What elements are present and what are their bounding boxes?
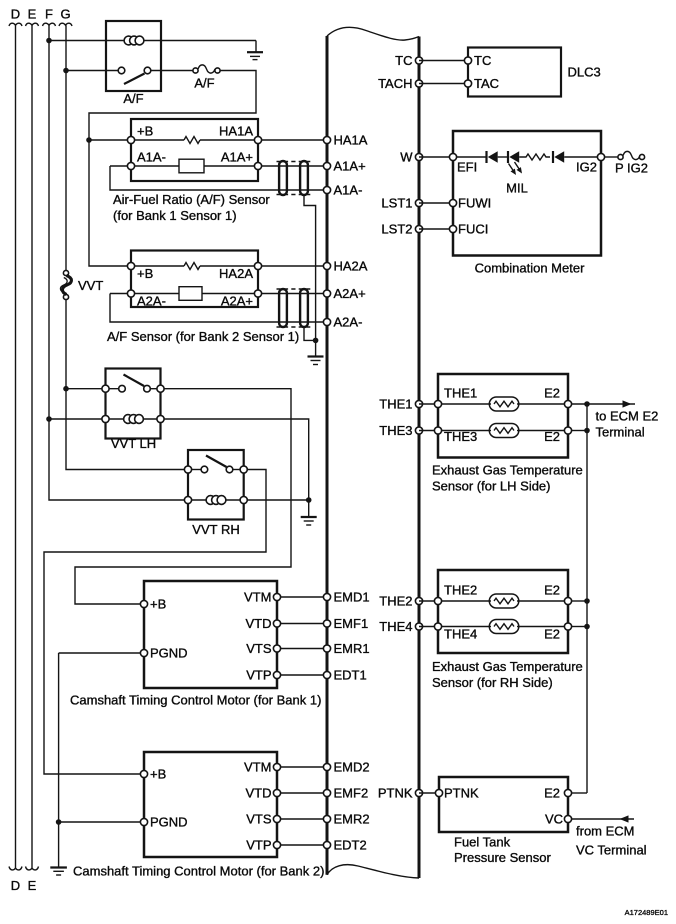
svg-text:A/F: A/F	[194, 76, 214, 91]
svg-text:A2A+: A2A+	[221, 294, 253, 309]
svg-text:A2A-: A2A-	[137, 294, 166, 309]
svg-text:LST1: LST1	[381, 196, 412, 211]
svg-text:THE4: THE4	[379, 619, 412, 634]
svg-text:A1A+: A1A+	[221, 150, 253, 165]
svg-text:to ECM E2: to ECM E2	[596, 409, 659, 424]
svg-text:HA1A: HA1A	[219, 124, 253, 139]
svg-text:D: D	[11, 878, 20, 893]
svg-text:Exhaust Gas Temperature: Exhaust Gas Temperature	[432, 659, 583, 674]
svg-text:THE4: THE4	[444, 627, 477, 642]
svg-text:W: W	[400, 150, 413, 165]
svg-text:VTD: VTD	[246, 616, 272, 631]
svg-text:EMR1: EMR1	[334, 641, 370, 656]
svg-text:TAC: TAC	[474, 76, 499, 91]
svg-text:VVT: VVT	[78, 278, 103, 293]
svg-text:+B: +B	[137, 124, 153, 139]
svg-text:VTS: VTS	[246, 812, 272, 827]
svg-text:PGND: PGND	[150, 815, 188, 830]
svg-text:TACH: TACH	[378, 76, 412, 91]
svg-text:MIL: MIL	[506, 181, 528, 196]
svg-text:Air-Fuel Ratio (A/F) Sensor: Air-Fuel Ratio (A/F) Sensor	[113, 192, 270, 207]
svg-text:HA2A: HA2A	[219, 266, 253, 281]
svg-text:TC: TC	[474, 53, 491, 68]
svg-text:A172489E01: A172489E01	[625, 908, 668, 917]
svg-text:A2A+: A2A+	[334, 286, 366, 301]
svg-text:+B: +B	[150, 597, 166, 612]
svg-text:FUWI: FUWI	[458, 196, 491, 211]
svg-text:A2A-: A2A-	[334, 315, 363, 330]
svg-text:VTM: VTM	[244, 590, 271, 605]
svg-text:E2: E2	[544, 583, 560, 598]
svg-text:Pressure Sensor: Pressure Sensor	[454, 850, 551, 865]
svg-text:THE3: THE3	[379, 423, 412, 438]
svg-text:TC: TC	[395, 53, 412, 68]
svg-text:EMF2: EMF2	[334, 786, 369, 801]
svg-text:F: F	[45, 7, 53, 22]
svg-text:from ECM: from ECM	[576, 824, 635, 839]
svg-text:E: E	[28, 7, 37, 22]
svg-text:Combination Meter: Combination Meter	[475, 261, 585, 276]
svg-text:VTD: VTD	[246, 786, 272, 801]
svg-text:E2: E2	[544, 627, 560, 642]
svg-text:A/F Sensor (for Bank 2 Sensor: A/F Sensor (for Bank 2 Sensor 1)	[107, 329, 299, 344]
svg-text:THE1: THE1	[379, 397, 412, 412]
svg-text:EMD1: EMD1	[334, 590, 370, 605]
svg-text:A1A+: A1A+	[334, 159, 366, 174]
svg-text:IG2: IG2	[576, 160, 597, 175]
svg-text:+B: +B	[150, 767, 166, 782]
svg-text:Fuel Tank: Fuel Tank	[454, 835, 511, 850]
svg-text:VTP: VTP	[246, 668, 271, 683]
svg-text:FUCI: FUCI	[458, 222, 488, 237]
svg-text:PTNK: PTNK	[378, 786, 413, 801]
svg-text:Sensor (for RH Side): Sensor (for RH Side)	[432, 675, 553, 690]
svg-text:G: G	[60, 7, 70, 22]
svg-text:E2: E2	[544, 786, 560, 801]
svg-text:Exhaust Gas Temperature: Exhaust Gas Temperature	[432, 463, 583, 478]
svg-text:Sensor (for LH Side): Sensor (for LH Side)	[432, 479, 551, 494]
svg-text:EDT2: EDT2	[334, 838, 367, 853]
svg-text:LST2: LST2	[381, 222, 412, 237]
svg-text:VTM: VTM	[244, 760, 271, 775]
svg-text:+B: +B	[137, 266, 153, 281]
svg-text:EFI: EFI	[457, 160, 477, 175]
svg-text:A/F: A/F	[123, 91, 143, 106]
svg-text:VVT RH: VVT RH	[192, 522, 239, 537]
svg-text:PGND: PGND	[150, 646, 188, 661]
svg-text:EMR2: EMR2	[334, 812, 370, 827]
svg-text:HA1A: HA1A	[334, 133, 368, 148]
svg-text:THE2: THE2	[444, 583, 477, 598]
svg-text:VTS: VTS	[246, 641, 272, 656]
svg-text:THE2: THE2	[379, 594, 412, 609]
svg-text:A1A-: A1A-	[334, 183, 363, 198]
svg-text:VC: VC	[545, 812, 563, 827]
svg-text:EMF1: EMF1	[334, 616, 369, 631]
svg-text:PTNK: PTNK	[444, 786, 479, 801]
svg-text:D: D	[11, 7, 20, 22]
svg-text:P IG2: P IG2	[615, 161, 648, 176]
svg-text:EDT1: EDT1	[334, 668, 367, 683]
svg-text:Terminal: Terminal	[596, 425, 645, 440]
svg-text:THE1: THE1	[444, 386, 477, 401]
svg-text:A1A-: A1A-	[137, 150, 166, 165]
svg-text:Camshaft Timing Control Motor: Camshaft Timing Control Motor (for Bank …	[70, 693, 321, 708]
svg-text:E: E	[28, 878, 37, 893]
svg-text:VVT LH: VVT LH	[111, 436, 156, 451]
svg-text:VTP: VTP	[246, 838, 271, 853]
svg-text:E2: E2	[544, 429, 560, 444]
svg-text:DLC3: DLC3	[568, 65, 601, 80]
svg-text:VC Terminal: VC Terminal	[576, 843, 647, 858]
svg-text:HA2A: HA2A	[334, 259, 368, 274]
svg-text:Camshaft Timing Control Motor: Camshaft Timing Control Motor (for Bank …	[73, 864, 324, 879]
svg-text:THE3: THE3	[444, 429, 477, 444]
svg-text:(for Bank 1 Sensor 1): (for Bank 1 Sensor 1)	[113, 208, 237, 223]
svg-text:E2: E2	[544, 386, 560, 401]
svg-text:EMD2: EMD2	[334, 760, 370, 775]
